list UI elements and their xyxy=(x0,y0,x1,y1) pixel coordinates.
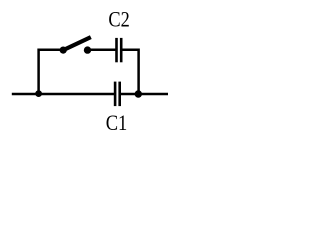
svg-text:C2: C2 xyxy=(108,7,129,32)
node: right junction dot xyxy=(135,90,142,97)
wire: left branch up and over to switch xyxy=(39,50,64,94)
capacitor C1 left plate xyxy=(114,82,117,107)
capacitor C1 right plate xyxy=(118,82,121,107)
capacitor C2 right plate xyxy=(120,38,123,62)
wire: main horizontal right segment xyxy=(120,93,168,96)
switch S1 left contact xyxy=(60,47,67,54)
svg-text:C1: C1 xyxy=(106,110,128,135)
wire: main horizontal left segment xyxy=(12,93,115,96)
switch S1 right contact xyxy=(84,46,91,53)
wire: switch to C2 xyxy=(88,48,117,51)
node: left junction dot xyxy=(35,90,42,97)
capacitor C2 left plate xyxy=(115,38,118,62)
wire: C2 to right junction xyxy=(121,50,138,94)
switch S1 lever arm xyxy=(63,37,91,50)
